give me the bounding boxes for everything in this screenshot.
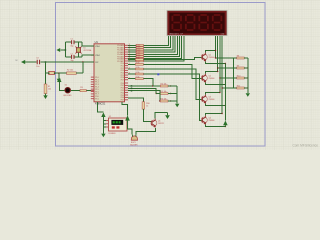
svg-text:R11: R11 [237,85,240,87]
svg-text:P1.1: P1.1 [95,79,98,81]
svg-text:P1.4: P1.4 [95,87,98,89]
resistor base4 [128,72,143,75]
svg-text:P1.5: P1.5 [95,89,98,91]
svg-text:P2.1: P2.1 [121,65,124,67]
wire emitter rail [224,64,226,121]
resistor R3 [80,87,86,92]
svg-text:P1.7: P1.7 [95,94,98,96]
wire MCU to DS rail [98,102,104,112]
wire XTAL2 [82,55,94,57]
resistor R10 [219,75,248,79]
resistor R11 [221,85,248,89]
svg-text:P1.0: P1.0 [95,77,98,79]
buzzer BUZ1 [130,135,138,147]
LED D1 [63,85,72,97]
svg-text:2N3906: 2N3906 [209,57,215,59]
wire R3 to MCU [86,90,91,92]
svg-text:P3.7: P3.7 [121,100,124,102]
wire xtal left vertical [64,42,66,57]
ground Q5 [165,113,170,120]
svg-text:P2.4: P2.4 [121,73,124,75]
capacitor C3 [36,58,39,68]
wire XTAL1 [82,42,94,46]
svg-text:R6 10k: R6 10k [161,98,167,100]
wire Q4 collector [206,114,223,116]
transistor Q3 [201,95,207,104]
wire Q1 collector [206,51,216,53]
op MCU U1 AT89C51 [94,44,125,102]
svg-text:P3.1: P3.1 [121,85,124,87]
resistor base2 [128,62,143,65]
svg-text:P2.5: P2.5 [121,75,124,77]
7-segment display U3 [167,10,228,36]
ground right group [246,93,250,97]
resistor R10 [128,98,150,109]
resistor seg7 [128,58,144,61]
resistor R9 [217,65,249,69]
svg-text:2N3906: 2N3906 [209,120,215,122]
wire Q2 collector [206,72,218,74]
svg-text:RST: RST [95,62,98,64]
svg-text:P3.5: P3.5 [121,95,124,97]
wire left vertical [233,58,235,88]
svg-text:R9: R9 [237,65,239,67]
svg-text:R 10k: R 10k [136,67,140,69]
svg-text:C3: C3 [36,58,38,60]
resistor R4 [128,83,177,87]
svg-text:R5 10k: R5 10k [161,91,167,93]
svg-text:R8: R8 [237,55,239,57]
capacitor C1 [65,39,82,48]
wire RST net [40,61,94,63]
svg-text:BUZZER: BUZZER [130,144,138,146]
svg-text:R 10k: R 10k [136,77,140,79]
svg-text:R10: R10 [237,75,240,77]
svg-text:CRYSTAL: CRYSTAL [83,49,92,52]
resistor base1 [128,58,143,61]
wire buzzer to Q5 emitter [136,128,156,134]
MCU left pin stubs [91,46,94,99]
wire R10 to Q5 base [143,109,151,121]
svg-text:P2.2: P2.2 [121,68,124,70]
svg-text:R3: R3 [80,87,82,89]
svg-text:R 10k: R 10k [136,72,140,74]
svg-text:P3.4: P3.4 [121,92,124,94]
svg-text:R2 10k: R2 10k [67,70,73,72]
marker [157,73,159,75]
crystal X1 [75,42,91,57]
transistor Q4 [201,116,207,125]
resistor seg1 [128,44,144,47]
svg-text:P2.3: P2.3 [121,70,124,72]
resistor R8 [215,55,248,59]
resistor R2 [67,62,83,75]
wire cluster common [176,86,178,104]
resistor R1 [44,84,51,94]
svg-text:LED-RED: LED-RED [63,95,72,97]
svg-text:P3.0: P3.0 [95,96,98,98]
svg-text:P3.1: P3.1 [95,99,98,101]
svg-text:Q5: Q5 [158,120,160,122]
resistor seg4 [128,51,144,54]
svg-text:30p: 30p [70,45,73,47]
svg-text:P3.6: P3.6 [121,97,124,99]
resistor R6 [128,90,177,102]
svg-text:P3.2: P3.2 [121,88,124,90]
power terminal LED [57,77,65,90]
svg-text:10k: 10k [48,89,51,91]
wire Q4 emitter [206,124,226,126]
wire base5 to cluster [143,79,152,86]
terminal crystal gnd [56,48,65,52]
transistor Q5 [151,119,157,128]
svg-text:P2.6: P2.6 [121,77,124,79]
svg-text:DS18B20: DS18B20 [108,133,115,135]
resistor seg2 [128,47,144,50]
svg-text:U2: U2 [109,116,111,118]
svg-text:P2.0: P2.0 [121,63,124,65]
button RESET [46,71,67,74]
wire digit bus lines [215,38,217,58]
svg-text:Q3: Q3 [209,96,211,98]
resistor seg6 [128,56,144,59]
svg-text:Q1: Q1 [209,54,211,56]
wire LED-R3 [71,90,80,92]
svg-text:R 10k: R 10k [136,58,140,60]
resistor base3 [128,67,143,70]
svg-text:Com MFG/licence: Com MFG/licence [292,144,318,148]
terminal +5V [15,60,36,64]
svg-text:D1: D1 [65,85,67,87]
ground button [57,73,61,82]
svg-text:2N3906: 2N3906 [209,78,215,80]
wire MCU to buzzer rail [122,102,128,116]
capacitor C2 [65,53,82,62]
wire ground vertical [247,58,249,93]
display digit pins [215,36,217,38]
svg-text:Q2: Q2 [209,75,211,77]
resistor seg5 [128,53,144,56]
svg-text:R 220: R 220 [136,61,140,63]
svg-text:P1.6: P1.6 [95,91,98,93]
pin numbers port2 [129,58,131,79]
wire Q1 emitter [206,61,226,63]
wire DS pins [103,121,108,127]
svg-text:Q4: Q4 [209,117,211,119]
wire Q3 emitter [206,103,226,105]
svg-text:P1.3: P1.3 [95,84,98,86]
MCU left pin labels [95,45,100,101]
svg-text:P3.3: P3.3 [121,90,124,92]
display segment wires (staircase) [144,36,169,45]
power terminal buzzer [125,115,132,134]
wire Q5 collector [155,113,167,119]
MCU right pin labels [117,44,124,102]
sensor U2 DS18B20 [108,116,127,135]
wire reset vertical [45,62,47,84]
ground DS [101,133,105,137]
wire base2 to Q2 [143,64,202,78]
svg-text:R4 10k: R4 10k [161,83,167,85]
svg-text:MSD/CAT 1 . DP: MSD/CAT 1 . DP [170,32,184,35]
MCU right pin stubs [125,45,129,100]
resistor base5 [128,77,143,80]
wire base4 to Q4 [143,74,202,121]
resistor seg8 [128,60,144,63]
svg-text:P3.0: P3.0 [121,83,124,85]
transistor Q1 [201,53,207,62]
svg-text:C2: C2 [70,53,72,55]
wire Q3 collector [206,93,220,95]
power terminal DS [101,112,105,133]
svg-text:2N2222: 2N2222 [158,123,164,125]
svg-text:R 10k: R 10k [136,62,140,64]
svg-text:2N3906: 2N3906 [209,99,215,101]
svg-text:C1: C1 [70,39,72,41]
power terminal V+ [223,121,228,127]
svg-text:10u: 10u [36,66,39,68]
svg-text:AT89C51: AT89C51 [95,103,106,106]
resistor R5 [128,88,177,95]
ground R1 [43,94,47,99]
svg-text:P1.2: P1.2 [95,82,98,84]
sheet border frame [56,3,266,147]
wire base1 to Q1 [143,58,202,60]
wire Q2 emitter [206,82,226,84]
pin numbers port0 [129,44,131,62]
ground cluster [175,104,179,108]
svg-text:P2.7: P2.7 [121,80,124,82]
resistor seg3 [128,49,144,52]
svg-text:1k: 1k [146,106,148,108]
transistor Q2 [201,74,207,83]
wire base3 to Q3 [143,69,202,100]
